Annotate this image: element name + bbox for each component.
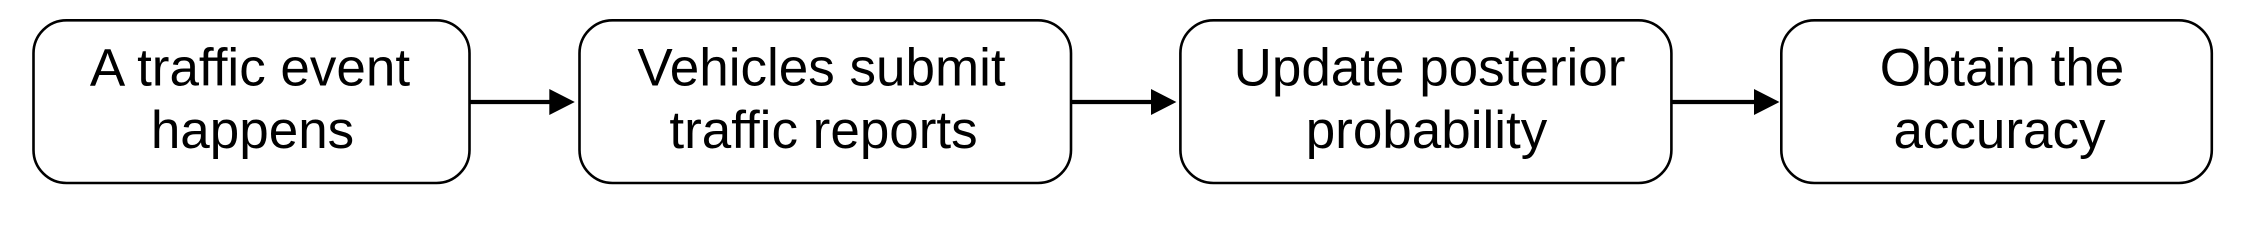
box 2: Vehicles submit traffic reports — [580, 20, 1072, 183]
arrow 1 — [470, 100, 553, 104]
arrow 2 — [1071, 100, 1154, 104]
svg-text:Obtain the: Obtain the — [1880, 38, 2125, 97]
box 3: Update posterior probability — [1180, 20, 1671, 183]
box 1: A traffic event happens — [34, 20, 470, 183]
svg-text:probability: probability — [1306, 101, 1548, 160]
svg-text:happens: happens — [151, 101, 354, 160]
svg-text:accuracy: accuracy — [1893, 101, 2106, 160]
svg-text:Update posterior: Update posterior — [1234, 38, 1626, 97]
svg-text:A traffic event: A traffic event — [90, 38, 410, 97]
arrow 3 — [1672, 100, 1758, 104]
svg-text:Vehicles submit: Vehicles submit — [637, 38, 1006, 97]
box 4: Obtain the accuracy — [1781, 20, 2212, 183]
svg-text:traffic reports: traffic reports — [669, 101, 977, 160]
